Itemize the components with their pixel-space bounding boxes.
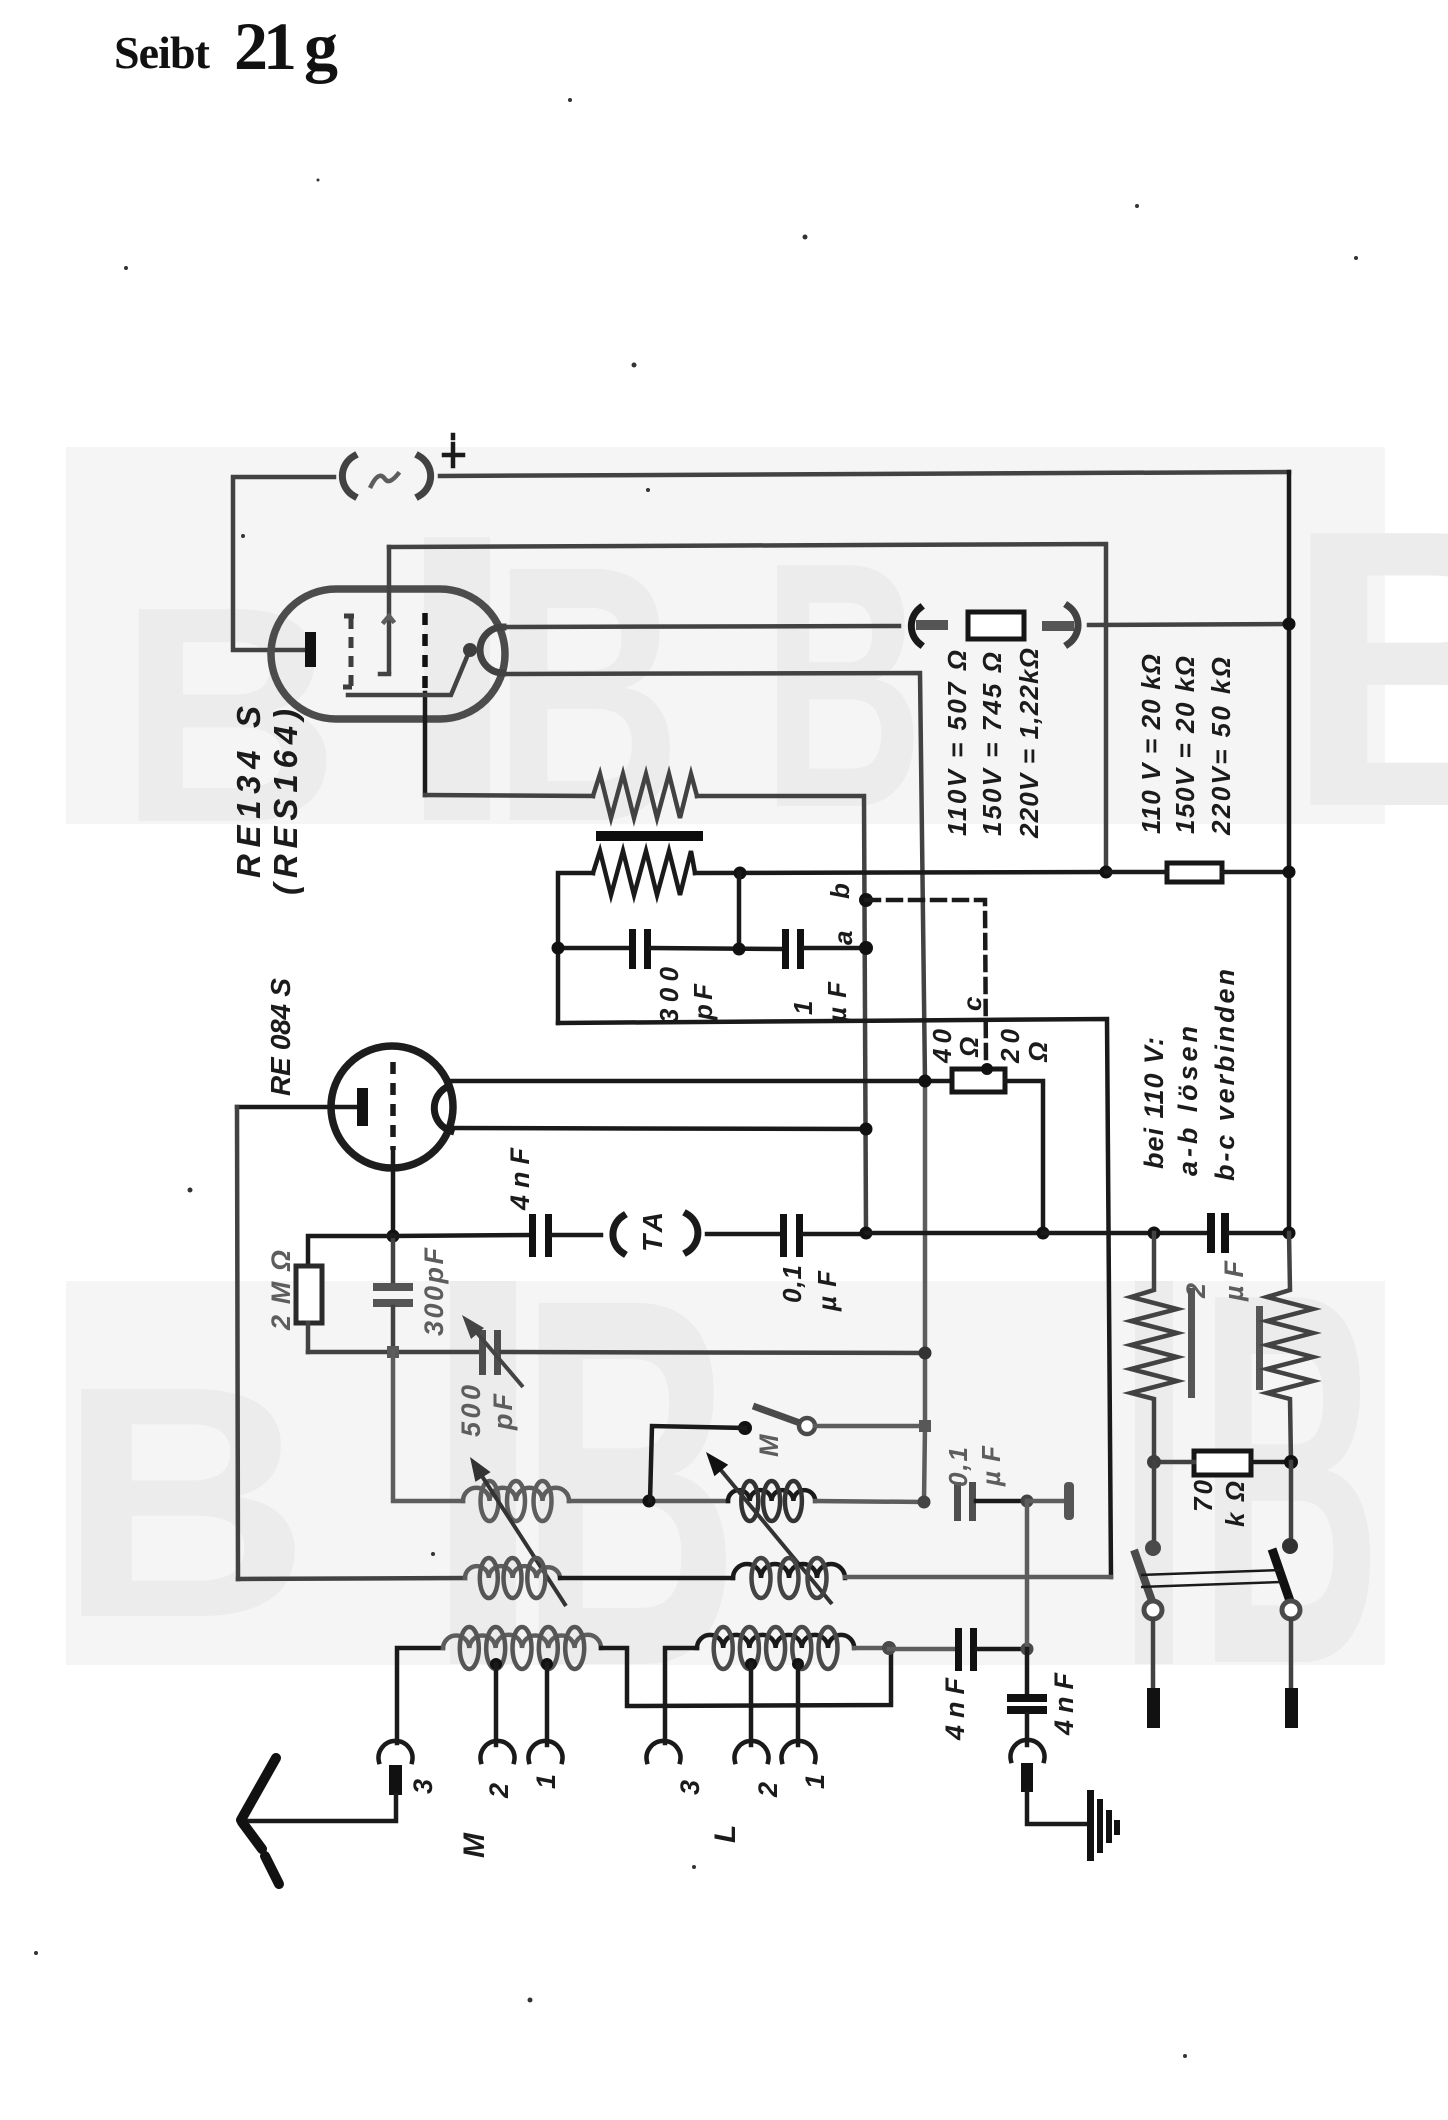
wire 300pF bottom leg [391,1307,396,1352]
junction dot fuse right rail [1283,618,1296,631]
scan speck 1 [568,98,572,102]
tap dot M coil 1 [541,1658,553,1670]
terminal T bar [1064,1482,1074,1520]
capacitor 300pF grid plate bottom [373,1299,413,1307]
scan speck 2 [803,235,808,240]
svg-text:0,1: 0,1 [777,1265,807,1303]
wire cap to T terminal [976,1499,1027,1504]
capacitor 300pF plate left [629,929,636,969]
junction dot 70k left [1147,1455,1161,1469]
junction dot y1233 x866 [860,1227,873,1240]
capacitor 4nF plate left [529,1214,536,1257]
junction dot mid cap row [733,943,746,956]
svg-text:a: a [828,931,858,945]
wire ground column to 4nF2 [1025,1649,1030,1694]
separator black bar [596,831,703,841]
mains plug pin right [1285,1688,1298,1728]
coil L1b row1 [728,1490,815,1501]
wire left column to switch [1152,1462,1157,1546]
capacitor 1uF plate right [797,929,804,969]
fuse right plug bar [1042,621,1074,631]
tube RE134S anode arc [480,627,503,673]
switch S1 pivot circle [1144,1601,1162,1619]
resistor box 20k on y872 [1167,863,1222,882]
junction dot left vertical [552,942,565,955]
wire x925 rail mid [923,1081,928,1353]
svg-text:(RES164): (RES164) [267,709,304,895]
switch M wire left drop [650,1426,745,1501]
wire row1 right to cap [815,1501,924,1502]
capacitor 4nF ground plate top [1007,1694,1047,1702]
wire 084S grid junction to 2M and caps [391,1150,396,1236]
plug antenna bar [389,1765,402,1795]
svg-text:3: 3 [675,1780,705,1795]
variometer arrow right [706,1452,832,1604]
wire 084S anode top lead [447,1079,955,1084]
wire row1 left riser [393,1352,463,1501]
scan speck 9 [241,534,245,538]
resistor right column [1267,1233,1313,1462]
variometer arrow left [470,1457,566,1606]
junction dot x1027 [1021,1495,1034,1508]
scan speck 13 [528,1998,533,2003]
svg-text:1: 1 [531,1774,561,1789]
capacitor 300pF grid plate top [373,1283,413,1291]
tube RE134S screen bottom hook [380,672,389,677]
wire M switch to x925 [815,1424,925,1429]
battery plug squiggle [371,474,398,486]
scan speck 6 [317,179,320,182]
capacitor 500pF plate right [494,1330,501,1375]
wire to 2M resistor [308,1236,393,1266]
coil L row3 [697,1635,854,1648]
coil L2b loops [752,1558,827,1598]
wire row2 left riser [238,1578,465,1579]
svg-text:110 V = 20 kΩ: 110 V = 20 kΩ [1136,654,1166,834]
wire y872 box to right rail [1222,870,1289,875]
switch S2 contact dot [1282,1538,1298,1554]
wire anode lower lead to x925 rail [502,673,925,1081]
resistor R2 cathode bias lower [593,851,695,895]
tube RE084S cathode bar [357,1088,368,1126]
wire grid cap 300pF leg [391,1236,396,1285]
junction dot anode lower to node column [860,1123,873,1136]
scan speck 3 [1135,204,1139,208]
wire tap M2 [494,1664,499,1745]
svg-text:RE 084 S: RE 084 S [265,978,296,1096]
wire plug to ground [1027,1792,1089,1824]
capacitor 0,1uF plate left [780,1214,787,1257]
junction dot y1233 x1043 [1037,1227,1050,1240]
wire row1 mid [569,1499,728,1504]
svg-text:2MΩ: 2MΩ [266,1250,296,1331]
wire right column to switch [1289,1462,1294,1544]
wire top left vertical from plug to RE134S cathode [233,477,334,650]
potentiometer wiper dot [981,1063,993,1075]
svg-text:500: 500 [456,1385,486,1437]
wire ground column upper [1025,1501,1030,1649]
switch M contact dot [738,1421,752,1435]
capacitor 0,1uF second plate left [954,1482,961,1521]
battery plug right arc [419,456,431,496]
wire S2 to plug [1289,1619,1294,1690]
wire L coil right end [854,1646,889,1651]
coil L2a row2 [465,1566,560,1578]
coil L loops [714,1627,838,1669]
junction dot y1353 x925 [919,1347,932,1360]
wire y1233 to pot drop [866,1231,1043,1236]
wire top rail to right rail [440,472,1289,476]
wire antenna coil left lead [397,1648,443,1743]
node b dot [859,893,873,907]
tube RE134S grid dashed [343,616,354,687]
svg-text:M: M [458,1832,491,1858]
tube RE134S cathode bar [305,632,316,667]
arrow 500pF [462,1315,523,1387]
mains plug pin left [1147,1688,1160,1728]
svg-text:3: 3 [408,1779,438,1794]
jack 1 left dome [529,1741,563,1762]
wire M coil right bend [601,1648,891,1706]
coil L1a row1 [463,1488,569,1501]
scan gray band top [66,447,1385,824]
scan speck 5 [124,266,128,270]
svg-text:110V = 507 Ω: 110V = 507 Ω [942,650,972,836]
capacitor 2uF plate right [1221,1213,1229,1253]
switch S2 pivot circle [1282,1601,1300,1619]
wire 084S anode lower lead [449,1128,866,1129]
fuse right arc [1068,606,1078,644]
svg-text:1: 1 [800,1774,830,1789]
plug ground bar [1021,1763,1033,1792]
coil L2b row2 [733,1564,845,1578]
coil L2a loops [480,1558,546,1598]
jack 2 left dome [481,1741,515,1762]
wire 0,1uF to node a column [803,1232,866,1237]
junction dot y1233 x1154 [1148,1227,1161,1240]
wire pot right down to bottom rail [1005,1081,1043,1233]
junction dot x925 on grid wire [919,1075,932,1088]
junction dot 70k right [1284,1455,1298,1469]
svg-text:150V = 20 kΩ: 150V = 20 kΩ [1170,656,1200,834]
watermark I bottom right [1135,1281,1173,1664]
junction dot L coil right [882,1641,896,1655]
tube RE084S grid dashed [390,1062,396,1150]
tube RE134S inner v notch [384,616,393,622]
svg-text:a-b lösen: a-b lösen [1173,1026,1203,1176]
capacitor 4nF plate right [545,1214,552,1257]
svg-text:L: L [709,1825,742,1843]
svg-text:2: 2 [1181,1283,1211,1299]
scan gray band bottom [66,1281,1385,1665]
junction dot ground column [1021,1643,1034,1656]
scan speck 14 [34,1951,38,1955]
svg-text:bei 110 V:: bei 110 V: [1139,1037,1169,1169]
TA jack left arc [613,1216,623,1253]
svg-text:B: B [762,490,924,881]
scan speck 7 [632,363,637,368]
wire S1 to plug [1151,1619,1156,1690]
watermark I top [424,537,490,820]
antenna symbol [241,1758,279,1884]
switch mechanical link [1141,1570,1281,1587]
wire grid return rail y1352 [308,1350,481,1355]
tap dot M coil 2 [490,1658,502,1670]
capacitor 2uF block plate left [1188,1288,1195,1398]
resistor left column [1131,1233,1177,1462]
jack ground dome [1011,1740,1045,1761]
scan speck 12 [692,1865,696,1869]
wire L coil left lead [665,1648,697,1743]
wire tap M1 [545,1664,550,1745]
svg-text:B: B [58,1318,311,1687]
tube RE134S grid2 lead down [423,693,428,795]
resistor R1 cathode bias upper [593,774,697,818]
svg-text:Seibt: Seibt [114,27,211,78]
resistor 70k box [1194,1451,1251,1475]
svg-text:B: B [1284,447,1448,889]
junction dot row1 tap [643,1495,656,1508]
wire fuse to right rail [1089,624,1289,625]
junction dot y1233 x1292 [1283,1227,1296,1240]
tube RE134S grid2 dashed electrode [422,613,428,693]
scan speck 8 [646,488,650,492]
coil M antenna loops [460,1627,584,1669]
svg-text:1: 1 [788,1001,818,1015]
switch S2 lever [1272,1549,1290,1601]
tube RE134S screen lead from top [387,547,392,672]
capacitor 0,1uF plate right [796,1214,803,1257]
svg-text:220V= 50 kΩ: 220V= 50 kΩ [1206,657,1236,836]
wire row2 mid [560,1576,733,1581]
wire 4nF to ground column [977,1647,1027,1652]
wire 70k left [1154,1460,1194,1465]
svg-text:Ω: Ω [1023,1042,1053,1063]
switch M lever [753,1406,800,1423]
wire antenna plug down [242,1795,396,1821]
wire R1 right to node column [697,796,866,1233]
switch M pivot circle [799,1418,815,1434]
scan speck 11 [431,1552,435,1556]
wire 4nF to TA [552,1233,601,1238]
wire y1352 right part [501,1352,925,1353]
fuse left arc [911,608,920,644]
tap dot L coil 2 [745,1658,757,1670]
tube RE134S inner bottom rail to anode [348,652,469,695]
junction dot row1 right [918,1496,931,1509]
svg-text:c: c [957,996,987,1011]
wire tap L2 [749,1664,754,1745]
wire 4nF2 to jack [1025,1714,1030,1745]
scan speck 10 [188,1188,193,1193]
svg-text:220V = 1,22kΩ: 220V = 1,22kΩ [1014,648,1044,839]
svg-text:4nF: 4nF [1049,1672,1079,1737]
wire right rail middle [1287,624,1292,872]
junction dot y1352 x393 [387,1346,399,1358]
svg-text:b-c verbinden: b-c verbinden [1210,969,1240,1181]
svg-text:2: 2 [484,1783,514,1799]
wire row2 right to frame [845,1575,1111,1580]
node a dot [859,941,873,955]
svg-text:2: 2 [753,1782,783,1798]
wire cap row left [558,946,631,951]
coil L1a loops [481,1481,552,1521]
svg-text:0,1: 0,1 [943,1447,973,1487]
junction dot x1106 [1100,866,1113,879]
svg-text:300pF: 300pF [419,1247,449,1337]
switch S1 lever [1134,1550,1152,1601]
wire R2 right to x1106 [695,872,1106,873]
scan speck 15 [1183,2054,1187,2058]
wire anode top lead to fuse [503,626,899,627]
wire R2 left drop [558,873,593,1023]
scan speck 4 [1354,256,1358,260]
junction dot 20k right rail [1283,866,1296,879]
capacitor 500pF plate left [479,1330,486,1375]
capacitor 1uF plate left [782,929,789,969]
coil L1b loops [741,1481,802,1521]
svg-text:21 g: 21 g [234,8,338,84]
wire y1233 row: tube junction to 4nF [393,1235,530,1236]
coil M antenna row3 [443,1635,601,1648]
jack 3 right dome [647,1741,681,1762]
wire left vertical from cathode down [237,1107,238,1579]
jack 2 right dome [735,1741,769,1762]
wire screen to right: y544 rail [389,544,1106,873]
wire right rail upper [1287,472,1292,624]
svg-text:TA: TA [637,1212,668,1252]
tube RE134S envelope [271,589,505,719]
ground symbol [1087,1790,1120,1861]
capacitor 4nF ground plate bottom [1007,1706,1047,1714]
TA jack right arc [687,1214,698,1252]
wire grid leak to R1 [425,795,593,796]
wire to T bar [1027,1499,1064,1504]
capacitor 300pF plate right [644,929,651,969]
plus terminal [444,435,463,466]
potentiometer 40/20 box [952,1069,1005,1092]
svg-text:b: b [825,883,855,899]
junction dot below 084S [387,1230,400,1243]
jack 3 left dome [379,1741,413,1762]
wire tap L1 [796,1664,801,1745]
wire TA to 0,1uF [707,1232,782,1237]
wire right rail lower [1287,872,1292,1233]
wire to 4nF antenna cap [889,1647,956,1652]
switch S1 contact dot [1145,1540,1161,1556]
svg-text:4nF: 4nF [940,1677,970,1742]
resistor 2M box [296,1266,322,1323]
wire cap row mid [651,948,784,949]
capacitor 0,1uF second plate right [969,1482,976,1521]
tube RE134S anode contact dot [463,643,477,657]
capacitor 4nF antenna plate left [955,1628,962,1671]
watermark I bottom [450,1281,516,1664]
svg-text:Ω: Ω [954,1037,984,1058]
svg-text:M: M [754,1434,784,1457]
tube RE084S anode arc [434,1086,451,1131]
tap dot L coil 1 [792,1658,804,1670]
junction dot M switch x925 [919,1420,931,1432]
wire cap row right to node a [804,946,866,951]
dashed link b to c [866,900,986,1066]
svg-text:300: 300 [654,966,684,1023]
jack 1 right dome [782,1741,816,1762]
wire 70k right [1251,1460,1291,1465]
capacitor 2uF plate left [1207,1213,1215,1253]
tube RE084S envelope [331,1046,453,1168]
wire y1233 to 2uF [1043,1231,1209,1236]
junction dot R2-right [734,867,747,880]
battery plug left arc [342,456,354,496]
wire link between cap junctions [737,873,742,949]
fuse left plug bar [916,620,948,630]
wire 2M bottom [306,1323,311,1352]
wire y872 between rails [1106,870,1167,875]
resistor mains barrel box [968,612,1024,639]
svg-text:4nF: 4nF [505,1147,535,1212]
capacitor 4nF antenna plate right [970,1628,977,1671]
wire bottom of bias box [558,1019,1111,1577]
wire x925 rail low [924,1353,925,1502]
tube RE084S cathode lead [237,1105,357,1110]
capacitor 2uF block plate right [1256,1306,1263,1390]
svg-text:150V = 745 Ω: 150V = 745 Ω [977,652,1007,836]
wire 2uF to right rail [1229,1231,1289,1236]
